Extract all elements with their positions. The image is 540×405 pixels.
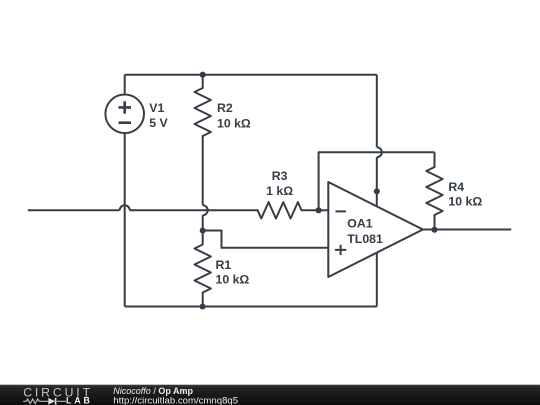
junction dot minus node — [316, 207, 322, 213]
svg-text:LAB: LAB — [66, 396, 93, 405]
wire hop of R2R1 line over input wire — [203, 205, 208, 215]
wire hop of input wire over V1 wire — [120, 205, 130, 210]
svg-text:10 kΩ: 10 kΩ — [217, 116, 251, 130]
svg-text:R3: R3 — [272, 169, 288, 183]
wire V1 bottom to rail — [124, 133, 126, 306]
wire plus-input branch — [203, 231, 329, 248]
svg-text:R4: R4 — [448, 180, 464, 194]
svg-text:10 kΩ: 10 kΩ — [216, 272, 250, 286]
wire input left segment — [28, 209, 120, 211]
svg-text:10 kΩ: 10 kΩ — [448, 194, 482, 208]
svg-text:R1: R1 — [216, 258, 232, 272]
wire output — [423, 229, 511, 231]
svg-text:http://circuitlab.com/cmnq8q5: http://circuitlab.com/cmnq8q5 — [113, 395, 238, 405]
junction dot V+ pin — [374, 188, 380, 194]
wire V+ supply drop upper — [376, 75, 378, 148]
footer bar — [0, 385, 540, 405]
wire bottom rail — [125, 306, 377, 308]
op-amp plus input mark — [335, 245, 346, 255]
junction dot bottom rail / R1 — [200, 303, 206, 309]
resistor R1 — [195, 215, 211, 306]
wire top rail — [125, 74, 377, 76]
resistor R2 — [195, 75, 211, 206]
logo diode — [48, 398, 55, 405]
svg-text:R2: R2 — [217, 101, 233, 115]
op-amp OA1 triangle body — [328, 182, 423, 277]
wire V- supply pin — [376, 253, 378, 307]
wire V1 top stub — [124, 75, 126, 95]
svg-text:OA1: OA1 — [347, 216, 372, 230]
voltage source V1 circle — [105, 95, 144, 134]
svg-text:1 kΩ: 1 kΩ — [266, 184, 293, 198]
junction dot output / R4 — [431, 227, 437, 233]
V1 plus mark — [119, 101, 132, 113]
resistor R4 — [426, 152, 442, 230]
wire hop of V+ drop over feedback wire — [377, 147, 382, 157]
wire V+ supply drop lower / pin — [376, 157, 378, 206]
svg-text:TL081: TL081 — [347, 232, 383, 246]
junction dot top rail / R2 — [200, 72, 206, 78]
op-amp minus input mark — [336, 210, 346, 212]
CircuitLab logo — [23, 386, 93, 405]
wire feedback up-and-over — [319, 152, 435, 210]
resistor R3 — [130, 202, 329, 218]
junction dot R2-R1 node / plus branch — [200, 227, 206, 233]
logo resistor wire — [23, 399, 66, 404]
svg-text:5 V: 5 V — [149, 116, 168, 130]
V1 minus mark — [119, 121, 132, 124]
svg-text:V1: V1 — [149, 101, 164, 115]
